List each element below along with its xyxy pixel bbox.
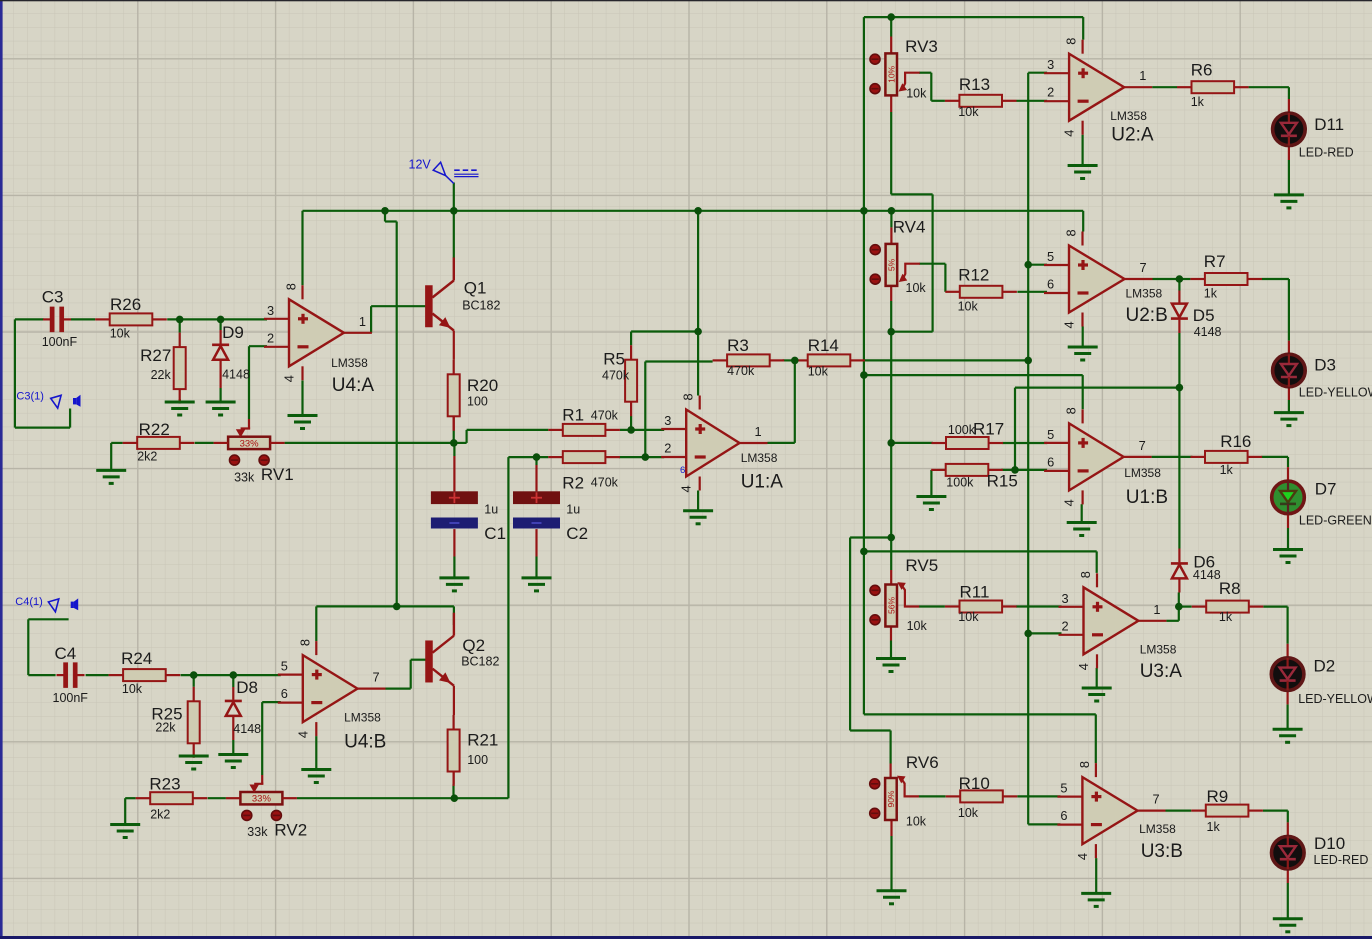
- svg-text:LED-RED: LED-RED: [1314, 853, 1369, 867]
- svg-text:R21: R21: [467, 731, 498, 750]
- svg-text:5: 5: [1060, 781, 1067, 796]
- svg-text:10k: 10k: [906, 815, 927, 829]
- svg-text:4: 4: [679, 485, 694, 492]
- svg-text:8: 8: [1064, 229, 1079, 236]
- svg-text:LM358: LM358: [741, 451, 778, 465]
- svg-text:2: 2: [1047, 85, 1054, 100]
- svg-text:10k: 10k: [122, 682, 143, 696]
- svg-text:Q2: Q2: [462, 636, 485, 655]
- svg-text:R27: R27: [140, 346, 171, 365]
- svg-text:4: 4: [1062, 130, 1077, 137]
- svg-text:LED-RED: LED-RED: [1299, 146, 1354, 160]
- svg-text:4: 4: [295, 731, 310, 738]
- svg-text:10k: 10k: [808, 365, 829, 379]
- svg-text:8: 8: [1077, 761, 1092, 768]
- svg-text:LM358: LM358: [1139, 822, 1176, 836]
- svg-text:C4(1): C4(1): [15, 596, 43, 608]
- svg-text:4148: 4148: [1194, 325, 1222, 339]
- svg-text:R1: R1: [562, 406, 584, 425]
- svg-text:C3: C3: [42, 287, 64, 306]
- svg-text:7: 7: [1153, 792, 1160, 807]
- svg-text:R13: R13: [959, 75, 990, 94]
- svg-text:1k: 1k: [1191, 95, 1205, 109]
- svg-text:R9: R9: [1207, 787, 1229, 806]
- svg-text:8: 8: [1064, 407, 1079, 414]
- svg-text:D7: D7: [1315, 480, 1337, 499]
- svg-text:1k: 1k: [1207, 820, 1221, 834]
- svg-text:LM358: LM358: [344, 710, 381, 724]
- svg-text:U4:B: U4:B: [344, 732, 386, 753]
- svg-text:10k: 10k: [907, 619, 928, 633]
- svg-text:470k: 470k: [591, 476, 619, 490]
- svg-text:3: 3: [664, 413, 671, 428]
- svg-text:RV1: RV1: [261, 465, 294, 484]
- svg-text:1k: 1k: [1220, 463, 1234, 477]
- svg-text:1u: 1u: [566, 503, 580, 517]
- svg-text:1: 1: [755, 424, 762, 439]
- svg-text:C4: C4: [55, 644, 77, 663]
- svg-text:6: 6: [1047, 454, 1054, 469]
- svg-text:U3:B: U3:B: [1141, 841, 1183, 862]
- svg-text:LED-YELLOW: LED-YELLOW: [1299, 386, 1372, 400]
- svg-text:RV5: RV5: [905, 556, 938, 575]
- svg-text:R26: R26: [110, 295, 141, 314]
- svg-text:R15: R15: [987, 472, 1018, 491]
- svg-text:R23: R23: [149, 774, 180, 793]
- svg-text:R2: R2: [562, 474, 584, 493]
- svg-text:470k: 470k: [727, 364, 755, 378]
- svg-text:BC182: BC182: [461, 655, 499, 669]
- svg-text:D5: D5: [1193, 306, 1215, 325]
- svg-text:3: 3: [267, 303, 274, 318]
- svg-text:R16: R16: [1220, 432, 1251, 451]
- svg-text:R8: R8: [1219, 579, 1241, 598]
- svg-text:100: 100: [467, 394, 488, 408]
- svg-text:U2:B: U2:B: [1126, 305, 1168, 326]
- svg-text:RV2: RV2: [274, 821, 307, 840]
- svg-text:8: 8: [284, 283, 299, 290]
- svg-text:4148: 4148: [1193, 568, 1221, 582]
- svg-text:7: 7: [1139, 438, 1146, 453]
- svg-text:LM358: LM358: [1140, 642, 1177, 656]
- svg-text:LED-GREEN: LED-GREEN: [1299, 513, 1372, 527]
- svg-text:33%: 33%: [240, 438, 260, 449]
- svg-text:5%: 5%: [887, 258, 897, 271]
- svg-text:U2:A: U2:A: [1111, 124, 1154, 145]
- svg-text:C2: C2: [566, 524, 588, 543]
- svg-text:5: 5: [281, 659, 288, 674]
- svg-text:C1: C1: [484, 524, 506, 543]
- svg-text:3: 3: [1047, 57, 1054, 72]
- svg-text:D2: D2: [1314, 656, 1336, 675]
- svg-text:100nF: 100nF: [53, 691, 89, 705]
- svg-text:U4:A: U4:A: [332, 375, 375, 396]
- svg-text:7: 7: [373, 670, 380, 685]
- svg-text:10k: 10k: [906, 86, 927, 100]
- svg-text:6: 6: [281, 686, 288, 701]
- svg-text:4148: 4148: [222, 367, 250, 381]
- svg-text:4: 4: [1076, 663, 1091, 670]
- svg-text:4: 4: [1062, 499, 1077, 506]
- svg-text:8: 8: [681, 393, 696, 400]
- svg-text:LED-YELLOW: LED-YELLOW: [1298, 692, 1372, 706]
- svg-text:8: 8: [297, 639, 312, 646]
- svg-text:RV4: RV4: [893, 218, 926, 237]
- svg-text:LM358: LM358: [331, 356, 368, 370]
- svg-text:2k2: 2k2: [137, 449, 157, 463]
- svg-text:100nF: 100nF: [42, 335, 78, 349]
- svg-text:C3(1): C3(1): [16, 390, 44, 402]
- svg-text:4: 4: [1075, 853, 1090, 860]
- svg-text:LM358: LM358: [1124, 466, 1161, 480]
- svg-text:4: 4: [1062, 321, 1077, 328]
- svg-text:D11: D11: [1314, 115, 1344, 134]
- svg-text:R3: R3: [727, 336, 749, 355]
- svg-text:33k: 33k: [247, 825, 268, 839]
- svg-text:D3: D3: [1314, 356, 1336, 375]
- svg-text:R11: R11: [960, 582, 990, 601]
- svg-text:10k: 10k: [110, 327, 131, 341]
- svg-text:BC182: BC182: [462, 298, 500, 312]
- svg-text:33k: 33k: [234, 470, 255, 484]
- svg-text:R5: R5: [603, 350, 625, 369]
- svg-text:R12: R12: [958, 266, 989, 285]
- svg-text:22k: 22k: [155, 721, 176, 735]
- svg-text:R24: R24: [121, 649, 152, 668]
- svg-text:470k: 470k: [591, 409, 619, 423]
- svg-text:D8: D8: [236, 678, 258, 697]
- svg-text:1: 1: [359, 314, 366, 329]
- svg-text:8: 8: [1078, 571, 1093, 578]
- svg-text:U1:B: U1:B: [1126, 487, 1168, 508]
- svg-text:R10: R10: [959, 774, 990, 793]
- svg-text:LM358: LM358: [1110, 109, 1147, 123]
- svg-text:R7: R7: [1204, 252, 1226, 271]
- svg-text:6: 6: [1060, 808, 1067, 823]
- svg-text:R17: R17: [973, 420, 1004, 439]
- svg-text:10k: 10k: [958, 610, 979, 624]
- svg-text:R22: R22: [139, 420, 170, 439]
- svg-text:90%: 90%: [886, 790, 896, 807]
- svg-text:56%: 56%: [886, 597, 896, 614]
- svg-text:1: 1: [1139, 68, 1146, 83]
- svg-text:22k: 22k: [151, 368, 172, 382]
- svg-text:6: 6: [1047, 277, 1054, 292]
- svg-text:4148: 4148: [233, 722, 261, 736]
- svg-text:1: 1: [1153, 602, 1160, 617]
- svg-text:Q1: Q1: [464, 279, 487, 298]
- svg-text:D10: D10: [1314, 834, 1345, 853]
- svg-text:33%: 33%: [252, 794, 272, 805]
- svg-text:10k: 10k: [958, 105, 979, 119]
- svg-text:12V: 12V: [409, 158, 432, 172]
- svg-text:5: 5: [1047, 427, 1054, 442]
- svg-text:100: 100: [467, 753, 488, 767]
- svg-text:10%: 10%: [886, 65, 896, 82]
- svg-text:1k: 1k: [1204, 287, 1218, 301]
- svg-text:10k: 10k: [906, 281, 927, 295]
- svg-text:D9: D9: [222, 323, 244, 342]
- svg-text:LM358: LM358: [1126, 286, 1163, 300]
- svg-text:8: 8: [1064, 38, 1079, 45]
- svg-text:5: 5: [1047, 249, 1054, 264]
- svg-text:U3:A: U3:A: [1140, 661, 1183, 682]
- svg-text:3: 3: [1062, 591, 1069, 606]
- svg-text:2: 2: [1062, 618, 1069, 633]
- svg-text:R20: R20: [467, 376, 498, 395]
- svg-text:6: 6: [680, 465, 685, 476]
- svg-text:100k: 100k: [946, 476, 974, 490]
- svg-text:4: 4: [282, 375, 297, 382]
- svg-text:R6: R6: [1191, 60, 1213, 79]
- svg-text:2: 2: [267, 330, 274, 345]
- svg-text:R14: R14: [808, 336, 839, 355]
- svg-text:10k: 10k: [958, 806, 979, 820]
- svg-text:1u: 1u: [484, 503, 498, 517]
- svg-text:RV6: RV6: [906, 753, 939, 772]
- svg-text:RV3: RV3: [905, 37, 938, 56]
- svg-text:100k: 100k: [948, 423, 976, 437]
- svg-text:7: 7: [1140, 260, 1147, 275]
- svg-text:10k: 10k: [958, 299, 979, 313]
- svg-text:470k: 470k: [602, 369, 630, 383]
- svg-text:U1:A: U1:A: [741, 471, 784, 492]
- svg-text:2: 2: [664, 441, 671, 456]
- svg-text:2k2: 2k2: [150, 807, 170, 821]
- svg-text:1k: 1k: [1219, 610, 1233, 624]
